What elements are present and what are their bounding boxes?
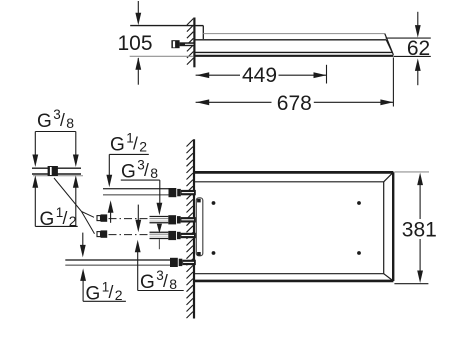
mounting bracket plate [196,198,203,256]
label G1/2 bottom [80,233,126,305]
label G3/8 middle [121,158,163,250]
supply pipe left [32,166,83,176]
svg-text:2: 2 [139,138,147,154]
svg-text:381: 381 [402,219,437,242]
svg-text:678: 678 [277,92,312,115]
label G1/2 middle [106,131,148,223]
svg-text:8: 8 [169,276,177,292]
screw holes (4 dots) [212,201,361,255]
dimension 678 [196,58,394,116]
svg-text:G: G [37,111,52,132]
label G3/8 bottom [135,205,184,293]
shower plate (bottom view) [195,172,393,281]
mounting screw (side view) [171,40,194,48]
dimension 381 [394,172,436,284]
dimension 449 [196,64,327,87]
wall (bottom view) [187,139,195,318]
fitting F1 [97,214,107,221]
fitting F2 [97,230,107,237]
svg-text:/: / [133,133,138,153]
label G3/8 top-left with bracket [32,107,78,167]
svg-text:G: G [140,272,155,293]
svg-text:/: / [109,282,114,302]
svg-text:/: / [144,160,149,180]
svg-text:G: G [121,161,136,182]
svg-text:105: 105 [117,32,152,55]
wall (side view) [187,18,195,68]
svg-text:/: / [63,208,68,228]
shower head profile (side view) [194,26,393,56]
svg-text:/: / [163,271,168,291]
pipe G1/2 row 4 [65,258,196,267]
svg-text:G: G [110,135,125,156]
dimension 62 [386,12,431,85]
svg-text:8: 8 [150,165,158,181]
union G3/8 row 2 [109,215,196,224]
dimension 105 [117,1,194,85]
label G1/2 left with bracket [32,175,78,230]
leader line to fittings [54,178,95,234]
svg-text:/: / [60,110,65,130]
union G3/8 row 3 [109,231,196,240]
svg-text:8: 8 [66,115,74,131]
svg-text:62: 62 [407,37,430,60]
svg-text:2: 2 [115,287,123,303]
pipe G1/2 row 1 [103,188,196,197]
svg-text:449: 449 [242,64,277,87]
